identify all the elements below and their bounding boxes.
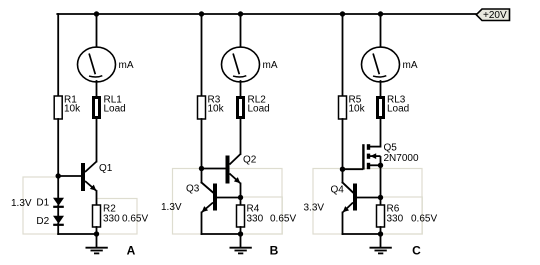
wire C ground stub (380, 234, 382, 248)
wire C Q4 collector drop (342, 169, 344, 182)
svg-text:0.65V: 0.65V (122, 214, 148, 225)
svg-text:330: 330 (247, 214, 264, 225)
node B R4 top node (238, 195, 243, 200)
wire B R3 to base node (201, 119, 203, 169)
wire C Q4 collector diagonal (343, 183, 354, 193)
wire A Q1 emitter to R2 (96, 191, 98, 205)
svg-text:mA: mA (263, 60, 278, 71)
wire B Q3 base wire (217, 197, 241, 199)
wire C R6 node to R6 (380, 198, 382, 206)
annotation box C R6 0.65V (381, 197, 423, 234)
wire C gate wire (343, 168, 363, 170)
wire C meter drop (380, 14, 382, 48)
wire B bottom horizontal (202, 233, 241, 235)
svg-text:Load: Load (387, 104, 409, 115)
svg-text:+20V: +20V (483, 10, 507, 21)
wire B R4 to ground node (240, 227, 242, 234)
svg-text:Q4: Q4 (331, 185, 345, 196)
svg-text:C: C (412, 244, 421, 258)
wire A D1 to D2 (57, 206, 59, 217)
svg-text:10k: 10k (64, 104, 81, 115)
svg-text:0.65V: 0.65V (411, 214, 437, 225)
transistor Q1 (NPN) (81, 162, 97, 192)
node C gate node (340, 167, 345, 172)
svg-text:330: 330 (387, 214, 404, 225)
wire C R5 to gate node (342, 119, 344, 169)
wire A base node to diodes (57, 176, 59, 198)
wire A D2 to bottom (57, 224, 59, 235)
svg-text:Q2: Q2 (243, 155, 257, 166)
wire B base wire Q2 (202, 168, 226, 170)
node rail tap A (94, 11, 99, 16)
svg-text:3.3V: 3.3V (304, 203, 325, 214)
node rail tap C left (340, 11, 345, 16)
svg-text:Q5: Q5 (384, 143, 398, 154)
wire C Q4 emitter to bottom (342, 213, 344, 235)
wire A meter drop (96, 14, 98, 48)
svg-text:Load: Load (104, 104, 126, 115)
wire B ground stub (240, 234, 242, 248)
svg-text:0.65V: 0.65V (270, 214, 296, 225)
node C R6 top node (378, 195, 383, 200)
node rail tap B left (199, 11, 204, 16)
wire A bottom horizontal (58, 233, 96, 235)
node C source node (378, 163, 383, 168)
resistor R1 (54, 96, 62, 119)
ammeter M2 (B) (222, 47, 260, 82)
resistor R2 (93, 205, 101, 227)
svg-text:1.3V: 1.3V (161, 202, 182, 213)
wire C R6 to ground node (380, 227, 382, 234)
wire B Q3 collector diagonal (202, 183, 214, 193)
ammeter M1 (A) (78, 47, 116, 82)
node A base node (56, 173, 61, 178)
resistor RL2 (load, thick border) (238, 98, 244, 118)
svg-text:B: B (270, 243, 279, 257)
wire B R4 node to R4 (240, 198, 242, 206)
svg-text:A: A (127, 244, 136, 258)
svg-text:10k: 10k (208, 104, 225, 115)
svg-text:D1: D1 (36, 198, 49, 209)
wire A RL1 to Q1 collector (96, 119, 98, 162)
wire C left drop to R5 (342, 14, 344, 96)
wire C bottom horizontal (343, 233, 381, 235)
resistor RL1 (load, thick border) (94, 98, 100, 118)
svg-text:1.3V: 1.3V (11, 198, 32, 209)
node C ground node (378, 231, 383, 236)
wire A base wire (58, 175, 81, 177)
annotation box A R2 0.65V (97, 199, 138, 235)
svg-text:330: 330 (103, 214, 120, 225)
wire A meter to RL1 (96, 81, 98, 97)
svg-text:Q3: Q3 (186, 184, 200, 195)
wire B meter drop (240, 14, 242, 48)
node B ground node (238, 231, 243, 236)
wire C meter to RL3 (380, 81, 382, 97)
wire A R1 to base node (57, 119, 59, 176)
ground A (86, 248, 108, 254)
resistor R3 (198, 96, 206, 119)
node B base node (199, 166, 204, 171)
power flag +20V (476, 9, 509, 21)
resistor RL3 (load, thick border) (378, 98, 384, 118)
wire A ground stub (96, 234, 98, 248)
wire B Q3 emitter to bottom (201, 213, 203, 235)
transistor Q5 (N-MOSFET 2N7000) (362, 144, 380, 169)
resistor R5 (339, 96, 347, 119)
diode D1 (53, 198, 64, 207)
svg-text:10k: 10k (349, 104, 366, 115)
svg-text:Load: Load (248, 104, 270, 115)
wire A R2 to ground node (96, 227, 98, 234)
transistor Q2 (NPN) (226, 154, 241, 184)
ground B (230, 248, 252, 254)
annotation box B R4 0.65V (241, 197, 283, 234)
annotation box C main 3.3V (313, 169, 422, 235)
resistor R4 (237, 205, 245, 227)
ammeter M3 (C) (362, 47, 400, 82)
diode D2 (53, 216, 64, 225)
node A ground node (94, 231, 99, 236)
wire A left drop to R1 (57, 14, 59, 96)
svg-text:mA: mA (403, 60, 418, 71)
svg-text:D2: D2 (36, 216, 49, 227)
wire B Q2 emitter to R4 node (240, 184, 242, 198)
wire B Q3 collector drop (201, 169, 203, 183)
svg-text:2N7000: 2N7000 (384, 153, 419, 164)
svg-text:mA: mA (119, 60, 134, 71)
wire +20V power rail (57, 13, 476, 15)
wire C RL3 to Q5 drain (380, 119, 382, 147)
resistor R6 (377, 205, 385, 227)
node rail tap B right (238, 11, 243, 16)
annotation box A diodes 1.3V (23, 177, 58, 234)
svg-text:Q1: Q1 (99, 163, 113, 174)
annotation box B main 1.3V (173, 169, 283, 235)
wire B left drop to R3 (201, 14, 203, 96)
wire C Q5 source to R6 node (380, 165, 382, 197)
transistor Q4 (NPN mirrored) (343, 183, 358, 213)
ground C (370, 248, 392, 254)
wire B meter to RL2 (240, 81, 242, 97)
node rail tap C right (378, 11, 383, 16)
wire B RL2 to Q2 collector (240, 119, 242, 154)
wire C Q4 base wire (357, 197, 381, 199)
transistor Q3 (NPN mirrored) (202, 183, 218, 213)
